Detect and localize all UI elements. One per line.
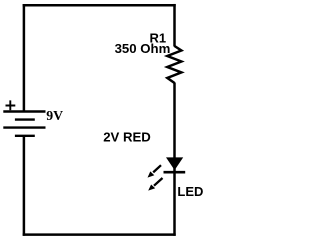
LED light arrow 2	[148, 178, 162, 191]
wire: top horizontal	[23, 4, 176, 7]
svg-text:2V RED: 2V RED	[103, 129, 151, 144]
LED D1 cathode bar	[164, 171, 186, 174]
wire: left vertical lower (battery - to bottom)	[23, 136, 26, 236]
wire: right vertical upper (top to resistor)	[173, 4, 176, 47]
battery B1 plate 2 (short)	[15, 118, 35, 120]
wire: left vertical upper (to battery +)	[23, 4, 26, 112]
resistor R1 zigzag	[167, 46, 181, 83]
LED light arrow 1	[148, 165, 162, 177]
wire: bottom horizontal	[23, 233, 176, 236]
battery + polarity mark	[6, 100, 16, 110]
svg-text:9V: 9V	[46, 108, 63, 123]
battery B1 plate 4 (short, -)	[15, 135, 35, 137]
wire: right vertical lower (resistor to bottom)	[173, 83, 176, 236]
battery B1 plate 3 (long)	[3, 126, 45, 128]
svg-text:350 Ohm: 350 Ohm	[115, 41, 171, 56]
LED D1 triangle (anode)	[166, 157, 183, 170]
battery B1 plate 1 (long, +)	[3, 110, 45, 112]
svg-text:LED: LED	[177, 184, 203, 199]
